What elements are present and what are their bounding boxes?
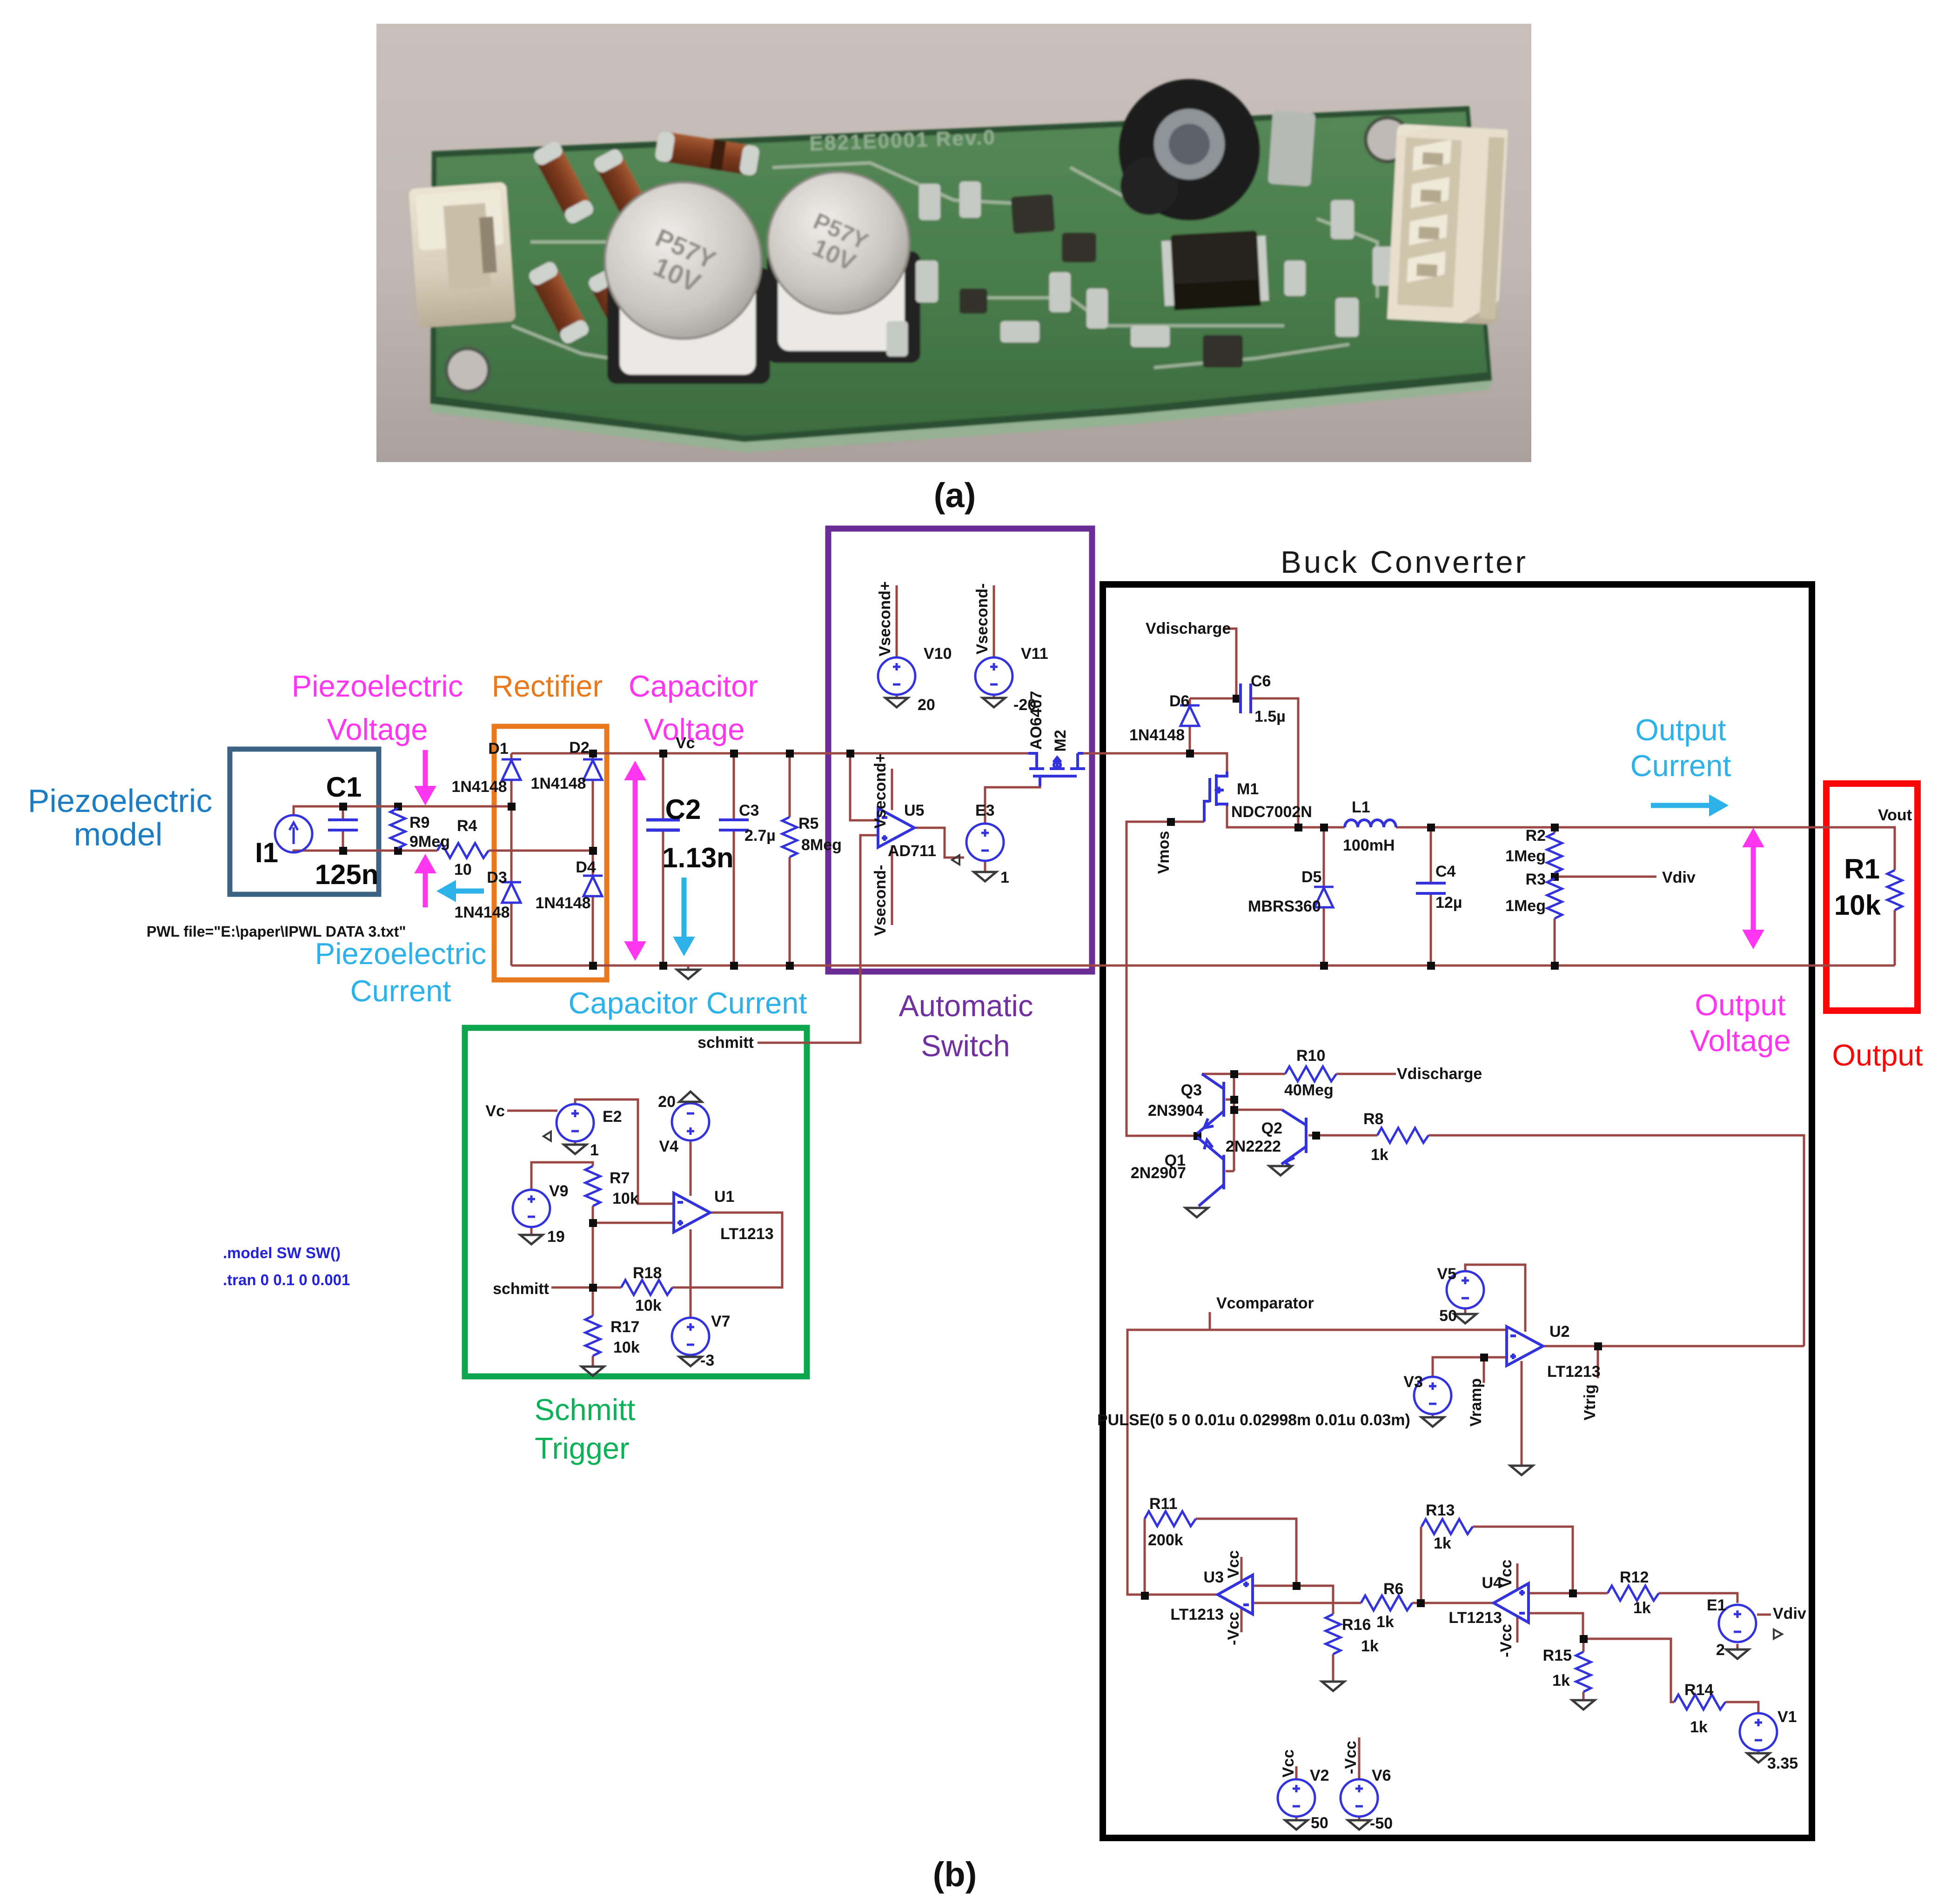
svg-text:V11: V11 bbox=[1021, 645, 1048, 663]
svg-text:MBRS360: MBRS360 bbox=[1248, 898, 1321, 915]
voltage source V7 bbox=[672, 1318, 709, 1355]
svg-text:8Meg: 8Meg bbox=[801, 836, 842, 854]
wire: R5 leads bbox=[789, 753, 791, 965]
svg-text:Trigger: Trigger bbox=[535, 1431, 629, 1465]
resistor R12 bbox=[1608, 1586, 1659, 1601]
wire: D1 branch bbox=[510, 753, 513, 965]
svg-text:schmitt: schmitt bbox=[493, 1280, 549, 1298]
voltage source V5 bbox=[1447, 1271, 1484, 1308]
wire: V11 leads bbox=[993, 585, 995, 698]
voltage source V1 bbox=[1740, 1713, 1777, 1750]
annotation: Output bbox=[1832, 1038, 1923, 1072]
annotation: Output Current bbox=[1630, 713, 1731, 783]
svg-text:1N4148: 1N4148 bbox=[454, 904, 510, 921]
svg-text:D3: D3 bbox=[487, 869, 507, 886]
svg-text:20: 20 bbox=[918, 696, 935, 714]
Rectifier box bbox=[494, 726, 607, 980]
svg-text:.model SW SW(): .model SW SW() bbox=[223, 1244, 341, 1261]
svg-text:100mH: 100mH bbox=[1343, 837, 1395, 854]
svg-text:V5: V5 bbox=[1437, 1265, 1456, 1283]
svg-text:D6: D6 bbox=[1169, 692, 1189, 710]
svg-text:1Meg: 1Meg bbox=[1505, 847, 1546, 865]
resistor R1 bbox=[1887, 870, 1902, 910]
svg-text:10k: 10k bbox=[612, 1190, 639, 1207]
arrow: capacitor current (cyan down) bbox=[674, 878, 694, 955]
ground E1 bbox=[1726, 1649, 1749, 1659]
resistor R7 bbox=[585, 1166, 600, 1206]
diode D2 bbox=[583, 759, 603, 780]
svg-text:Vcomparator: Vcomparator bbox=[1216, 1294, 1314, 1312]
svg-text:200k: 200k bbox=[1148, 1531, 1183, 1549]
diode D3 bbox=[502, 882, 521, 903]
svg-text:-Vcc: -Vcc bbox=[1225, 1612, 1242, 1645]
left white connector bbox=[409, 182, 516, 328]
wire: D5 leads bbox=[1323, 827, 1325, 965]
svg-text:2: 2 bbox=[1716, 1641, 1725, 1659]
wire: V5 to U2 Vplus bbox=[1465, 1265, 1525, 1332]
svg-text:1k: 1k bbox=[1690, 1718, 1708, 1736]
svg-text:Vdiv: Vdiv bbox=[1773, 1605, 1806, 1622]
wire: top rail Vc bbox=[511, 753, 1227, 771]
capacitor C3 bbox=[719, 820, 749, 830]
ground Q2 bbox=[1269, 1166, 1292, 1175]
ground V2 bbox=[1285, 1820, 1308, 1830]
ground V11 bbox=[983, 698, 1005, 707]
voltage source V10 bbox=[878, 657, 915, 695]
Automatic Switch box bbox=[828, 529, 1092, 972]
svg-text:R10: R10 bbox=[1296, 1047, 1325, 1065]
op-amp U1 bbox=[674, 1193, 710, 1232]
svg-text:Buck Converter: Buck Converter bbox=[1281, 545, 1528, 580]
pmos M2 bbox=[1028, 753, 1085, 786]
svg-text:schmitt: schmitt bbox=[697, 1034, 754, 1052]
power flag V4 bbox=[679, 1092, 702, 1102]
svg-text:Output: Output bbox=[1635, 713, 1726, 747]
svg-text:Vdiv: Vdiv bbox=[1662, 869, 1696, 886]
ground V3 bbox=[1422, 1417, 1444, 1427]
transistor Q2 (npn mirrored) bbox=[1281, 1110, 1306, 1166]
svg-text:V10: V10 bbox=[924, 645, 952, 663]
svg-text:V1: V1 bbox=[1777, 1708, 1797, 1726]
ground R15 bbox=[1572, 1700, 1595, 1710]
svg-text:.tran 0 0.1 0 0.001: .tran 0 0.1 0 0.001 bbox=[223, 1271, 350, 1288]
resistor R9 bbox=[390, 808, 405, 848]
small SMD parts bbox=[886, 181, 1396, 356]
svg-text:1N4148: 1N4148 bbox=[1129, 726, 1185, 744]
svg-text:AD711: AD711 bbox=[888, 842, 936, 860]
svg-text:Q3: Q3 bbox=[1181, 1081, 1202, 1099]
wire: V4 to U1 bbox=[690, 1102, 692, 1196]
resistor R17 bbox=[585, 1316, 600, 1356]
svg-text:10k: 10k bbox=[1834, 890, 1881, 921]
svg-text:Vcc: Vcc bbox=[1225, 1550, 1242, 1579]
svg-text:Piezoelectric: Piezoelectric bbox=[292, 669, 463, 703]
svg-text:R3: R3 bbox=[1526, 871, 1546, 888]
wire: U5 supply pins bbox=[891, 769, 893, 925]
annotation: Piezoelectric Voltage bbox=[292, 669, 463, 746]
voltage source V4 (inverted) bbox=[672, 1103, 709, 1140]
resistor R10 bbox=[1285, 1066, 1336, 1081]
voltage source V3 bbox=[1414, 1377, 1451, 1414]
wire: U3 upper input / R16 bbox=[1253, 1586, 1333, 1681]
Piezoelectric model box bbox=[230, 749, 379, 894]
wire: U2 Vminus to ground bbox=[1521, 1361, 1523, 1465]
svg-text:1k: 1k bbox=[1434, 1535, 1451, 1552]
svg-text:Vramp: Vramp bbox=[1467, 1378, 1485, 1427]
ground E2 bbox=[564, 1145, 586, 1154]
svg-text:40Meg: 40Meg bbox=[1284, 1081, 1334, 1099]
svg-text:LT1213: LT1213 bbox=[1547, 1363, 1601, 1381]
svg-text:Vdischarge: Vdischarge bbox=[1146, 620, 1231, 637]
ground V6 bbox=[1348, 1820, 1370, 1830]
svg-text:Voltage: Voltage bbox=[327, 712, 428, 746]
svg-text:1N4148: 1N4148 bbox=[451, 778, 507, 796]
wire: Q3 collector / R10 net bbox=[1202, 1073, 1396, 1075]
svg-text:C2: C2 bbox=[665, 794, 701, 825]
svg-text:model: model bbox=[74, 816, 163, 852]
svg-text:(b): (b) bbox=[933, 1855, 977, 1894]
svg-text:1Meg: 1Meg bbox=[1505, 897, 1546, 915]
wire: E2 ground stub bbox=[574, 1140, 577, 1144]
wire: mid rail to output bbox=[1227, 806, 1895, 965]
svg-text:Switch: Switch bbox=[921, 1029, 1010, 1063]
wire: Q bases vertical bbox=[1226, 1074, 1234, 1171]
resistor R2 bbox=[1547, 833, 1562, 873]
transistor Q1 (pnp) bbox=[1197, 1137, 1224, 1206]
wire: U2 output Vtrig bbox=[1543, 1346, 1804, 1378]
wire: U5 output to E3 bbox=[915, 828, 964, 858]
wire: bottom ground rail bbox=[511, 965, 1895, 969]
svg-text:1k: 1k bbox=[1376, 1613, 1394, 1631]
svg-text:R7: R7 bbox=[610, 1169, 630, 1187]
op-amp U2 bbox=[1507, 1327, 1543, 1366]
resistor R15 bbox=[1576, 1652, 1591, 1692]
resistor R13 bbox=[1422, 1519, 1473, 1534]
ground V5 bbox=[1454, 1314, 1476, 1323]
svg-text:10k: 10k bbox=[613, 1339, 640, 1356]
svg-text:1: 1 bbox=[590, 1141, 599, 1159]
arrow: output current (cyan right) bbox=[1651, 795, 1728, 816]
ground V1 bbox=[1747, 1753, 1770, 1763]
label: Vcomparator bbox=[1216, 1294, 1314, 1312]
op-amp U4 (mirrored) bbox=[1494, 1583, 1529, 1622]
svg-text:R2: R2 bbox=[1526, 827, 1546, 845]
svg-text:1.5µ: 1.5µ bbox=[1254, 708, 1286, 725]
capacitor C2 bbox=[646, 820, 680, 830]
svg-text:Q2: Q2 bbox=[1261, 1120, 1282, 1137]
svg-text:Piezoelectric: Piezoelectric bbox=[315, 937, 486, 971]
arrow: piezo current (cyan left) bbox=[437, 881, 484, 901]
svg-text:R5: R5 bbox=[798, 815, 818, 832]
annotation: Capacitor Voltage bbox=[629, 669, 758, 746]
arrow: capacitor voltage (magenta double) bbox=[625, 762, 645, 960]
diode D6 bbox=[1180, 705, 1200, 726]
svg-text:50: 50 bbox=[1311, 1814, 1328, 1832]
svg-text:1k: 1k bbox=[1633, 1599, 1651, 1617]
svg-text:2N2907: 2N2907 bbox=[1131, 1164, 1186, 1182]
wire: schmitt node R18 U1 output loop bbox=[551, 1213, 782, 1287]
svg-text:U3: U3 bbox=[1204, 1569, 1224, 1586]
svg-text:Current: Current bbox=[350, 974, 451, 1008]
svg-text:Capacitor: Capacitor bbox=[629, 669, 758, 703]
voltage source V11 bbox=[975, 657, 1013, 695]
voltage source V9 bbox=[513, 1190, 550, 1227]
ground Q1 bbox=[1186, 1208, 1208, 1217]
svg-text:50: 50 bbox=[1439, 1307, 1457, 1325]
wire: V2 stubs bbox=[1295, 1766, 1298, 1820]
svg-text:Vsecond+: Vsecond+ bbox=[872, 753, 889, 829]
svg-text:U2: U2 bbox=[1549, 1323, 1569, 1341]
inductor L1 bbox=[1345, 820, 1396, 827]
svg-text:2.7µ: 2.7µ bbox=[744, 827, 776, 845]
wire: piezo lower rail / R4 net bbox=[294, 830, 593, 852]
svg-text:Schmitt: Schmitt bbox=[535, 1393, 636, 1427]
svg-text:-50: -50 bbox=[1370, 1815, 1393, 1832]
4 MELF resistors bbox=[527, 131, 760, 353]
wire: V6 stubs bbox=[1358, 1737, 1361, 1820]
svg-text:R15: R15 bbox=[1543, 1647, 1572, 1664]
svg-text:Vcc: Vcc bbox=[1280, 1750, 1297, 1778]
label: spice directives bbox=[223, 1244, 350, 1288]
svg-text:V7: V7 bbox=[711, 1313, 731, 1330]
svg-text:E2: E2 bbox=[603, 1108, 622, 1126]
wire: V1 ground stub bbox=[1757, 1750, 1760, 1752]
wire: piezo upper rail bbox=[294, 806, 511, 820]
svg-text:R1: R1 bbox=[1844, 853, 1880, 885]
svg-text:V9: V9 bbox=[549, 1182, 569, 1200]
svg-text:Piezoelectric: Piezoelectric bbox=[28, 783, 213, 819]
svg-text:V4: V4 bbox=[659, 1138, 678, 1155]
svg-text:19: 19 bbox=[547, 1228, 565, 1246]
svg-text:R18: R18 bbox=[633, 1264, 662, 1282]
svg-text:U1: U1 bbox=[714, 1188, 734, 1206]
svg-text:M2: M2 bbox=[1052, 730, 1069, 751]
svg-text:LT1213: LT1213 bbox=[1448, 1609, 1502, 1627]
svg-text:C6: C6 bbox=[1251, 672, 1271, 690]
ground U2 bbox=[1510, 1466, 1533, 1475]
svg-text:Vsecond+: Vsecond+ bbox=[876, 581, 894, 657]
transistor Q3 (npn mirrored) bbox=[1197, 1074, 1224, 1133]
wire: R2 R3 divider and Vdiv tap bbox=[1555, 827, 1656, 965]
svg-text:V2: V2 bbox=[1310, 1767, 1329, 1784]
svg-text:V6: V6 bbox=[1372, 1767, 1391, 1784]
resistor R6 bbox=[1361, 1596, 1412, 1610]
capacitor C1 bbox=[328, 820, 358, 830]
wire: U4 supply stubs bbox=[1516, 1563, 1519, 1643]
svg-text:E3: E3 bbox=[975, 802, 995, 819]
svg-text:D5: D5 bbox=[1301, 868, 1321, 886]
wire: E3 ground stub bbox=[984, 861, 986, 871]
svg-text:R13: R13 bbox=[1426, 1502, 1455, 1519]
svg-text:R9: R9 bbox=[409, 814, 429, 831]
svg-text:C3: C3 bbox=[739, 802, 759, 819]
resistor R3 bbox=[1547, 878, 1562, 918]
dependent source E2 bbox=[543, 1104, 594, 1141]
svg-text:LT1213: LT1213 bbox=[1170, 1606, 1224, 1623]
svg-text:1: 1 bbox=[1000, 869, 1009, 886]
svg-text:Vdischarge: Vdischarge bbox=[1397, 1065, 1482, 1083]
svg-text:R8: R8 bbox=[1363, 1110, 1383, 1128]
svg-text:12µ: 12µ bbox=[1435, 894, 1462, 912]
op-amp U3 (mirrored) bbox=[1218, 1575, 1253, 1614]
capacitor C6 (horizontal) bbox=[1241, 684, 1251, 713]
right white connector bbox=[1387, 124, 1508, 325]
current source I1 bbox=[275, 815, 312, 852]
annotation: Automatic Switch bbox=[899, 989, 1033, 1063]
wire: R7 node to U1 lower input bbox=[593, 1206, 674, 1316]
svg-text:-Vcc: -Vcc bbox=[1497, 1624, 1515, 1657]
ground R17 bbox=[582, 1367, 604, 1376]
diode D5 bbox=[1314, 887, 1334, 907]
resistor R11 bbox=[1145, 1511, 1196, 1526]
Schmitt Trigger box bbox=[465, 1028, 807, 1376]
resistor R8 bbox=[1377, 1128, 1428, 1143]
wire: V10 leads bbox=[896, 585, 898, 698]
wire: R17 ground lead bbox=[592, 1356, 594, 1366]
svg-text:C4: C4 bbox=[1435, 863, 1456, 880]
svg-text:1k: 1k bbox=[1371, 1146, 1388, 1164]
svg-text:Vcc: Vcc bbox=[1497, 1560, 1515, 1588]
svg-text:R11: R11 bbox=[1149, 1495, 1178, 1513]
wire: U4 upper input to R12 to E1 bbox=[1529, 1593, 1737, 1603]
svg-text:2N3904: 2N3904 bbox=[1148, 1102, 1203, 1120]
voltage source V2 bbox=[1278, 1779, 1315, 1817]
svg-text:R14: R14 bbox=[1684, 1681, 1713, 1699]
wire: R13 loop bbox=[1421, 1527, 1573, 1602]
arrow: piezo voltage (magenta down) bbox=[415, 750, 436, 805]
wire: V3 to U2 plus input Vramp bbox=[1433, 1357, 1507, 1416]
wire: C6 right to mid rail bbox=[1251, 698, 1298, 827]
svg-text:V3: V3 bbox=[1403, 1373, 1423, 1391]
svg-text:1.13n: 1.13n bbox=[662, 842, 733, 873]
resistor R5 bbox=[782, 817, 797, 857]
ground V10 bbox=[885, 698, 908, 707]
annotation: Schmitt Trigger bbox=[535, 1393, 636, 1465]
op-amp U5 bbox=[878, 808, 914, 847]
wire: R15 leads bbox=[1582, 1639, 1585, 1699]
svg-text:Vmos: Vmos bbox=[1155, 831, 1173, 874]
arrow: piezo voltage (magenta up) bbox=[415, 855, 436, 907]
svg-text:Voltage: Voltage bbox=[1690, 1024, 1791, 1058]
wire: M1 gate to Vmos bbox=[1127, 822, 1204, 1136]
svg-text:C1: C1 bbox=[326, 771, 362, 803]
diode D1 bbox=[502, 759, 521, 780]
wire: U3 lower input / R6 / J6 bbox=[1253, 1602, 1495, 1604]
wire: V7 to U1 bbox=[690, 1229, 692, 1319]
wire: Vcomparator net to U3 bbox=[1127, 1312, 1507, 1595]
nmos M1 bbox=[1204, 771, 1227, 822]
svg-text:3.35: 3.35 bbox=[1767, 1755, 1798, 1772]
annotation: Rectifier bbox=[492, 669, 603, 703]
svg-text:1k: 1k bbox=[1552, 1672, 1570, 1689]
SOIC-8 chip bbox=[1161, 230, 1269, 311]
svg-text:D4: D4 bbox=[576, 858, 596, 876]
wire: Vdischarge to D6/C6 node bbox=[1190, 629, 1241, 753]
svg-text:PULSE(0 5 0 0.01u 0.02998m 0.0: PULSE(0 5 0 0.01u 0.02998m 0.01u 0.03m) bbox=[1097, 1411, 1410, 1429]
svg-text:Vc: Vc bbox=[485, 1102, 505, 1120]
svg-text:-Vcc: -Vcc bbox=[1342, 1741, 1360, 1774]
Buck Converter box bbox=[1103, 584, 1812, 1838]
svg-text:AO6407: AO6407 bbox=[1027, 691, 1045, 750]
svg-text:Vsecond-: Vsecond- bbox=[973, 583, 991, 654]
wire: C2 leads bbox=[662, 753, 664, 965]
diode D4 bbox=[583, 876, 603, 896]
svg-text:LT1213: LT1213 bbox=[720, 1225, 774, 1243]
Output box bbox=[1826, 784, 1918, 1011]
svg-text:2N2222: 2N2222 bbox=[1226, 1138, 1281, 1155]
svg-text:R6: R6 bbox=[1383, 1580, 1403, 1598]
label: PWL file bbox=[147, 923, 406, 940]
wire: Q2 base to R8 and feedback bbox=[1308, 1135, 1804, 1346]
annotation: Piezoelectric model bbox=[28, 783, 213, 852]
svg-text:Voltage: Voltage bbox=[644, 712, 745, 746]
dependent source E1 bbox=[1719, 1605, 1782, 1642]
annotation: Capacitor Current bbox=[569, 986, 807, 1020]
svg-text:Vsecond-: Vsecond- bbox=[872, 865, 889, 936]
svg-text:Vout: Vout bbox=[1878, 806, 1912, 824]
arrow: output voltage (magenta double) bbox=[1743, 829, 1764, 948]
annotation: Piezoelectric Current bbox=[315, 937, 486, 1008]
capacitor C4 bbox=[1416, 883, 1446, 893]
svg-text:Output: Output bbox=[1832, 1038, 1923, 1072]
wire: Q2 collector bbox=[1234, 1109, 1282, 1111]
wire: C4 leads bbox=[1430, 827, 1432, 965]
annotation: Output Voltage bbox=[1690, 988, 1791, 1058]
svg-text:1k: 1k bbox=[1361, 1637, 1379, 1655]
ground E3 bbox=[974, 872, 996, 881]
svg-text:(a): (a) bbox=[934, 476, 976, 515]
ground V7 bbox=[679, 1357, 702, 1366]
resistor R4 bbox=[437, 843, 489, 858]
svg-text:NDC7002N: NDC7002N bbox=[1231, 803, 1312, 821]
annotation: Buck Converter bbox=[1281, 545, 1528, 580]
svg-text:Current: Current bbox=[1630, 749, 1731, 783]
wire: Vc to E2 bbox=[507, 1110, 557, 1112]
svg-text:1N4148: 1N4148 bbox=[530, 775, 586, 792]
svg-text:Automatic: Automatic bbox=[899, 989, 1033, 1023]
svg-text:L1: L1 bbox=[1352, 798, 1370, 816]
svg-text:10: 10 bbox=[454, 861, 472, 878]
labels: rotated net names bbox=[872, 581, 1599, 1777]
wire: E3 to M2 gate bbox=[985, 778, 1040, 824]
svg-text:Rectifier: Rectifier bbox=[492, 669, 603, 703]
dependent source E3 bbox=[952, 824, 1004, 865]
wire: V9 to R7 bbox=[531, 1162, 593, 1234]
ground V9 bbox=[520, 1235, 543, 1244]
big electrolytic caps bbox=[605, 172, 920, 384]
svg-text:R16: R16 bbox=[1342, 1616, 1371, 1634]
labels: big serif values bbox=[255, 771, 1881, 921]
svg-text:R17: R17 bbox=[610, 1318, 639, 1336]
wire: E2 to U1 upper input bbox=[575, 1099, 674, 1204]
svg-text:125n: 125n bbox=[315, 859, 379, 890]
svg-text:10k: 10k bbox=[635, 1297, 662, 1314]
svg-text:D1: D1 bbox=[488, 740, 508, 758]
svg-text:E1: E1 bbox=[1707, 1596, 1726, 1614]
svg-text:U5: U5 bbox=[904, 802, 924, 819]
svg-text:-3: -3 bbox=[700, 1352, 714, 1369]
wire: C3 leads bbox=[733, 753, 735, 965]
svg-text:1N4148: 1N4148 bbox=[535, 894, 590, 912]
voltage source V6 bbox=[1341, 1779, 1378, 1817]
ground R16 bbox=[1322, 1682, 1344, 1691]
wire: U4 lower input to R14 V1 bbox=[1529, 1613, 1758, 1712]
svg-text:D2: D2 bbox=[569, 739, 589, 757]
wire: U5 minus input to schmitt bbox=[758, 835, 878, 1043]
resistor R14 bbox=[1674, 1695, 1725, 1710]
svg-text:Capacitor Current: Capacitor Current bbox=[569, 986, 807, 1020]
labels: component names and values bbox=[409, 620, 1912, 1832]
